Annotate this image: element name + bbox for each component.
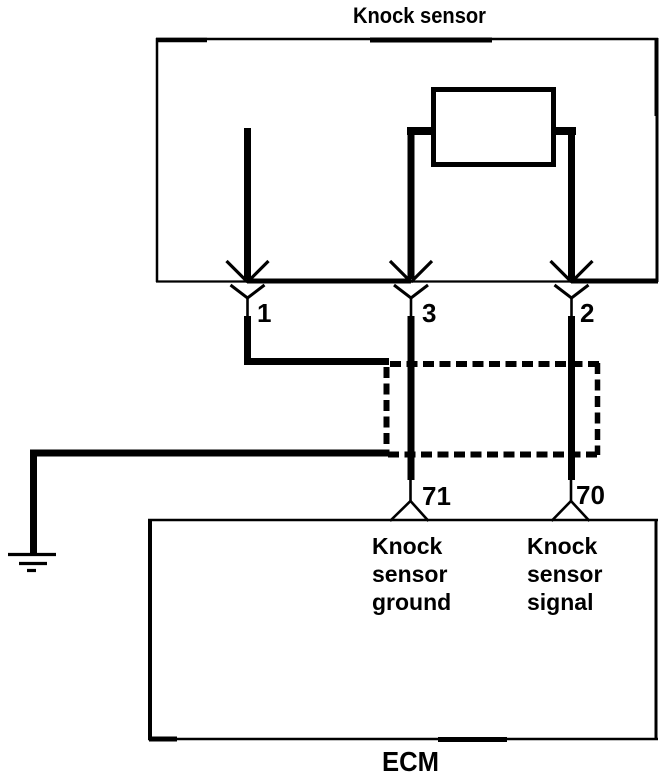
- wire: shield to chassis ground: [30, 450, 388, 554]
- svg-text:sensor: sensor: [527, 561, 602, 587]
- label: Knock sensor signal (terminal 70): [527, 533, 602, 615]
- svg-text:Knock sensor: Knock sensor: [353, 3, 486, 28]
- svg-text:3: 3: [422, 298, 436, 328]
- svg-text:2: 2: [580, 298, 594, 328]
- wire: pin 3 to ECM terminal 71: [408, 316, 415, 480]
- wire: sensor case ground lead to pin 1: [244, 128, 251, 279]
- connector pin 1 (male arrow / female Y): [227, 261, 269, 318]
- svg-text:signal: signal: [527, 589, 593, 615]
- svg-text:70: 70: [576, 480, 605, 510]
- chassis ground symbol: [8, 555, 56, 571]
- shield (dashed rectangle): [387, 363, 600, 455]
- svg-text:Knock: Knock: [527, 533, 598, 559]
- svg-text:sensor: sensor: [372, 561, 447, 587]
- svg-text:Knock: Knock: [372, 533, 443, 559]
- ECM box: [148, 519, 658, 740]
- wire: sensor element right lead to pin 2: [551, 127, 576, 279]
- wire: pin 2 to ECM terminal 70: [568, 316, 575, 480]
- svg-text:ground: ground: [372, 589, 451, 615]
- wire: sensor element left lead to pin 3: [407, 127, 436, 279]
- ECM terminal 70 (female Y into ECM): [552, 478, 590, 521]
- svg-text:71: 71: [422, 481, 451, 511]
- knock sensor element (inner rectangle): [434, 90, 554, 165]
- svg-text:ECM: ECM: [382, 746, 439, 777]
- connector pin 3 (male arrow / female Y): [390, 261, 432, 318]
- label: Knock sensor ground (terminal 71): [372, 533, 451, 615]
- ECM terminal 71 (female Y into ECM): [390, 478, 429, 521]
- wire: pin 1 down and right to shield: [244, 316, 389, 362]
- knock sensor assembly box: [156, 38, 658, 282]
- connector pin 2 (male arrow / female Y): [551, 261, 593, 318]
- svg-text:1: 1: [257, 298, 271, 328]
